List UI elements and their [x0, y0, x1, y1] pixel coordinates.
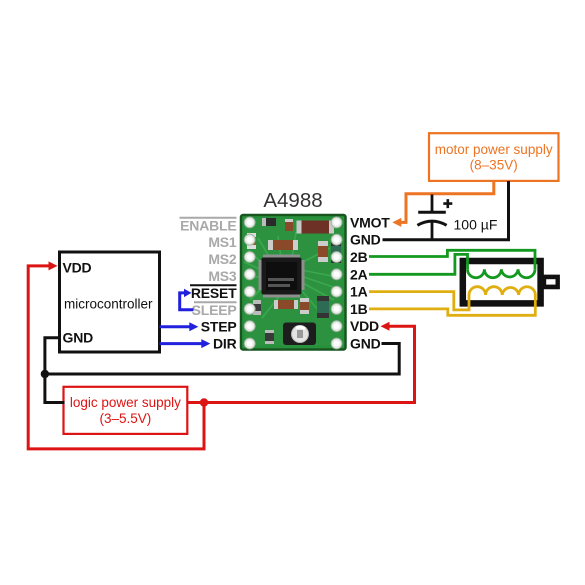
SMD parts	[247, 218, 341, 344]
wire VMOT orange from motor supply	[399, 181, 494, 223]
microcontroller box	[60, 252, 160, 352]
svg-text:VMOT: VMOT	[350, 214, 390, 230]
pin label SLEEP (overline)	[192, 302, 237, 318]
svg-text:(3–5.5V): (3–5.5V)	[100, 411, 152, 426]
traces	[244, 232, 336, 318]
svg-text:MS1: MS1	[208, 234, 237, 250]
svg-text:100 µF: 100 µF	[454, 216, 498, 232]
svg-text:motor power supply: motor power supply	[435, 142, 553, 157]
wire 2B green	[369, 250, 535, 269]
svg-text:(8–35V): (8–35V)	[470, 158, 518, 173]
motor power supply box	[429, 133, 559, 181]
motor winding 1 (yellow coil)	[469, 287, 535, 295]
svg-text:SLEEP: SLEEP	[192, 302, 237, 318]
motor winding 2 (green coil)	[468, 269, 536, 277]
wire VDD red from logic supply	[187, 326, 414, 402]
svg-text:1B: 1B	[350, 301, 368, 317]
svg-text:STEP: STEP	[201, 319, 237, 335]
pin label ENABLE (overline)	[180, 217, 237, 233]
svg-text:logic power supply: logic power supply	[70, 395, 181, 410]
junction red	[200, 398, 208, 406]
logic power supply box	[64, 387, 188, 434]
wire GND top + supply return	[383, 181, 509, 240]
svg-text:microcontroller: microcontroller	[64, 297, 153, 312]
PCB substrate	[241, 215, 346, 350]
svg-text:ENABLE: ENABLE	[180, 217, 236, 233]
wire STEP blue	[160, 325, 191, 328]
svg-text:A4988: A4988	[263, 189, 322, 212]
wire 1A yellow	[369, 292, 469, 310]
wire DIR blue	[160, 342, 203, 345]
wire 2A green	[369, 254, 468, 274]
svg-text:GND: GND	[350, 336, 381, 352]
junction black	[41, 370, 49, 378]
pin label RESET (overline)	[190, 285, 237, 301]
A4988 carrier board U1	[241, 215, 346, 350]
svg-text:GND: GND	[350, 232, 381, 248]
capacitor C1 100uF	[417, 195, 452, 242]
wire red loop to microcontroller VDD	[28, 266, 204, 449]
stepper motor body	[463, 261, 560, 303]
wire GND black bus to driver GND	[45, 344, 399, 375]
svg-text:1A: 1A	[350, 284, 368, 300]
svg-text:RESET: RESET	[191, 285, 237, 301]
svg-text:2A: 2A	[350, 266, 368, 282]
svg-text:VDD: VDD	[350, 318, 379, 334]
arrow into VDD	[381, 322, 390, 331]
trimpot	[283, 323, 316, 346]
wire GND black microcontroller to logic supply	[45, 338, 65, 403]
IC A4988 chip	[259, 255, 305, 298]
svg-text:MS3: MS3	[208, 268, 237, 284]
svg-text:DIR: DIR	[213, 336, 237, 352]
svg-text:GND: GND	[63, 329, 94, 345]
arrow into microcontroller VDD	[49, 261, 58, 270]
svg-text:2B: 2B	[350, 249, 368, 265]
svg-text:MS2: MS2	[208, 251, 237, 267]
header pads	[244, 217, 342, 349]
wire 1B yellow	[369, 295, 535, 315]
jumper RESET-SLEEP blue	[180, 293, 194, 310]
svg-text:VDD: VDD	[63, 259, 92, 275]
arrow into VMOT	[392, 218, 401, 227]
